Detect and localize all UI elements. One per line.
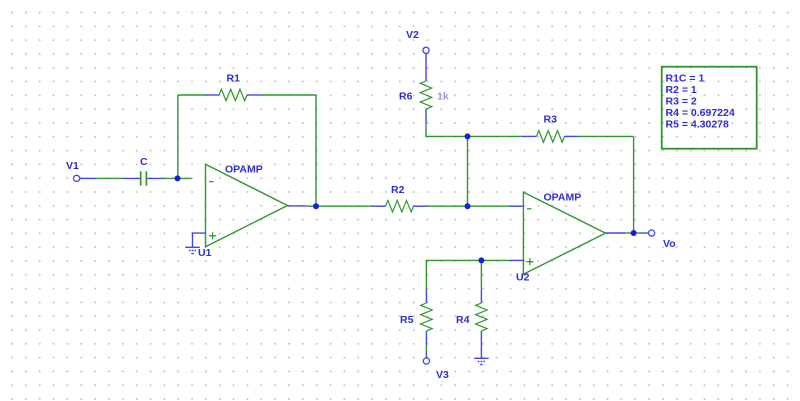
wire C to U1 inverting input bbox=[164, 177, 192, 179]
port V2 bbox=[423, 47, 429, 64]
svg-text:V2: V2 bbox=[406, 29, 419, 41]
wire U2 noninverting net bbox=[426, 260, 510, 289]
wire R6 to corner bbox=[426, 123, 468, 136]
resistor R5 bbox=[421, 290, 433, 345]
resistor R6 bbox=[420, 65, 432, 124]
resistor R2 bbox=[372, 200, 428, 212]
svg-text:R1C = 1: R1C = 1 bbox=[666, 72, 705, 84]
junction node B bbox=[313, 203, 319, 209]
wire feedback right vertical bbox=[315, 95, 317, 206]
port V1 bbox=[74, 175, 96, 181]
resistor R4 bbox=[476, 290, 488, 345]
port V3 bbox=[423, 351, 429, 364]
svg-text:Vo: Vo bbox=[663, 238, 676, 250]
svg-text:V1: V1 bbox=[66, 160, 79, 172]
svg-text:R1: R1 bbox=[227, 73, 241, 85]
wire R4 to ground bbox=[480, 345, 482, 359]
svg-text:R5: R5 bbox=[400, 314, 414, 326]
resistor R1 bbox=[205, 89, 261, 101]
parameters box bbox=[662, 67, 757, 149]
wire node A up to feedback bbox=[177, 95, 179, 178]
svg-text:R2 = 1: R2 = 1 bbox=[666, 84, 697, 96]
op-amp U2 bbox=[523, 192, 605, 274]
svg-text:U1: U1 bbox=[198, 247, 212, 259]
junction node A bbox=[175, 175, 181, 181]
svg-text:V3: V3 bbox=[436, 369, 449, 381]
junction node E bbox=[478, 257, 484, 263]
junction node D bbox=[631, 230, 637, 236]
port Vo bbox=[640, 230, 655, 236]
pin U1 output bbox=[288, 205, 308, 207]
pin U2 noninverting bbox=[510, 259, 523, 261]
svg-text:R5 = 4.30278: R5 = 4.30278 bbox=[666, 119, 730, 131]
svg-text:U2: U2 bbox=[516, 272, 530, 284]
wire V1 to C bbox=[96, 177, 124, 179]
wire R3 right bbox=[579, 135, 634, 137]
wire node E down to R4 bbox=[480, 260, 482, 289]
ground GND2 bbox=[474, 358, 489, 364]
wire R3 down to node D bbox=[633, 136, 635, 233]
wire U2 output to node D bbox=[626, 232, 640, 234]
junction node C2 bbox=[465, 133, 471, 139]
svg-text:C: C bbox=[140, 156, 148, 168]
wire U1 output to R2 bbox=[307, 205, 372, 207]
pin U2 inverting bbox=[510, 205, 523, 207]
svg-text:1k: 1k bbox=[437, 91, 449, 103]
svg-text:R3 = 2: R3 = 2 bbox=[666, 96, 697, 108]
ground GND1 bbox=[185, 247, 200, 253]
wire feedback top left bbox=[178, 94, 205, 96]
wire R2 to U2 inverting input bbox=[428, 205, 511, 207]
svg-text:OPAMP: OPAMP bbox=[544, 191, 582, 203]
svg-text:OPAMP: OPAMP bbox=[225, 164, 263, 176]
svg-text:R3: R3 bbox=[544, 114, 558, 126]
resistor R3 bbox=[523, 131, 579, 143]
svg-text:R4: R4 bbox=[456, 314, 470, 326]
pin U2 output bbox=[606, 232, 626, 234]
svg-text:R2: R2 bbox=[391, 184, 405, 196]
wire U1 + input step to ground bbox=[193, 233, 206, 247]
capacitor C1 bbox=[124, 171, 164, 185]
svg-text:R6: R6 bbox=[399, 91, 413, 103]
wire node C2 to R3 bbox=[468, 135, 523, 137]
junction node C bbox=[465, 203, 471, 209]
wire feedback top right bbox=[261, 94, 316, 96]
svg-text:R4 = 0.697224: R4 = 0.697224 bbox=[666, 107, 735, 119]
wire node C up to node C2 bbox=[467, 136, 469, 206]
op-amp U1 bbox=[206, 164, 288, 247]
wire R5 to V3 bbox=[425, 345, 427, 352]
